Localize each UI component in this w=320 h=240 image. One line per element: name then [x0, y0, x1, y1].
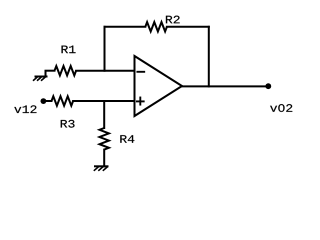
label R2: [166, 16, 180, 24]
ground (left, at R1 input): [34, 71, 47, 81]
label v02: [270, 104, 292, 112]
wire: R4 top lead from non-inverting node: [103, 101, 105, 128]
op-amp U1 triangle body: [135, 56, 183, 116]
wire: op-amp output to v02 terminal: [182, 85, 268, 87]
resistor R2: [145, 22, 167, 31]
ground (bottom, below R4): [94, 166, 107, 170]
wire: feedback right vertical down to output: [208, 27, 210, 87]
wire: R1 to op-amp inverting input: [76, 70, 134, 72]
wire: feedback vertical riser at node between R1 and op-amp: [104, 27, 106, 71]
wire: top feedback, right segment from R2: [167, 26, 209, 28]
node v12 (input terminal dot): [41, 98, 47, 104]
resistor R3: [52, 96, 74, 105]
wire: R3 to op-amp non-inverting input: [73, 100, 134, 102]
op-amp non-inverting input plus sign: [137, 98, 144, 105]
label v12: [14, 105, 36, 113]
wire: top feedback, left segment to R2: [105, 26, 146, 28]
wire: v12 terminal to R3: [43, 100, 51, 102]
label R4: [120, 135, 134, 143]
label R3: [61, 120, 75, 128]
node v02 (output terminal dot): [265, 83, 271, 89]
label R1: [62, 46, 76, 54]
wire: R4 bottom lead to ground: [103, 150, 105, 167]
op-amp inverting input minus sign: [137, 71, 144, 73]
resistor R4: [100, 128, 109, 150]
wire: left ground to R1: [46, 70, 55, 72]
resistor R1: [55, 66, 77, 75]
